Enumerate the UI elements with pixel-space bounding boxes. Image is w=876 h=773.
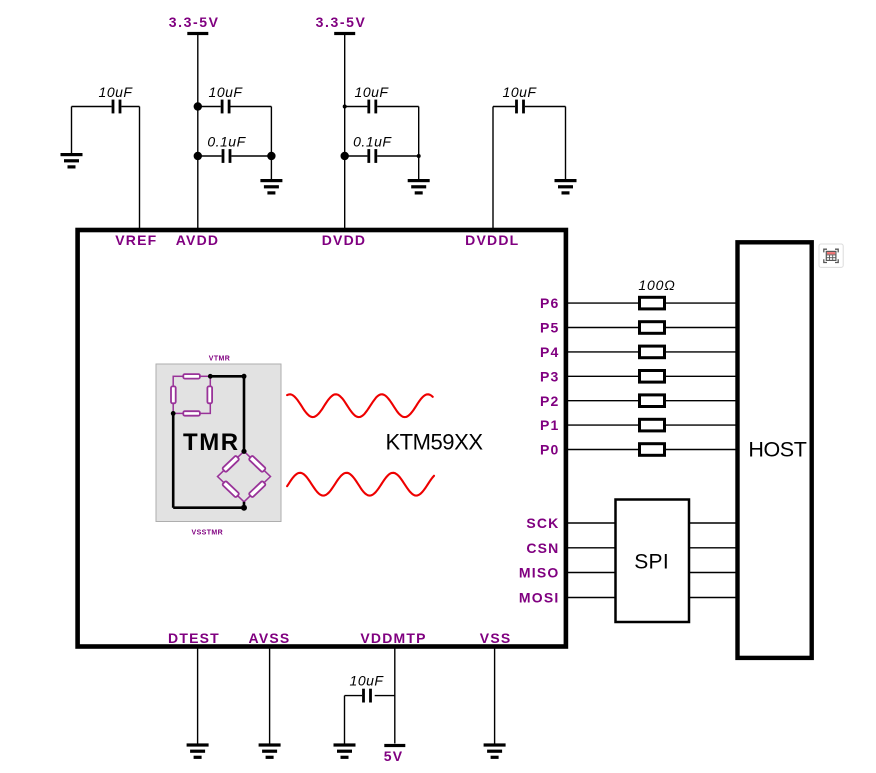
wire DVDD 10uF left lead <box>345 106 368 108</box>
junction AVDD 0.1uF right / ground <box>267 152 275 160</box>
wire CSN to SPI block <box>566 547 616 549</box>
wire VDDMTP cap ground drop <box>344 696 346 744</box>
svg-text:P4: P4 <box>540 344 560 360</box>
wire AVDD 0.1uF left lead <box>198 155 222 157</box>
svg-text:10uF: 10uF <box>350 673 385 689</box>
svg-text:0.1uF: 0.1uF <box>353 133 392 149</box>
wire DVDD ground drop <box>418 156 420 179</box>
svg-text:MISO: MISO <box>519 565 560 581</box>
svg-text:P1: P1 <box>540 417 560 433</box>
power rail bar 5V <box>384 744 405 747</box>
wire P4 to resistor <box>566 351 640 353</box>
wire MISO to SPI block <box>566 572 616 574</box>
TMR diamond resistor upper-right <box>249 455 266 472</box>
junction AVDD rail / 10uF <box>194 102 202 110</box>
junction TMR square bottom-left <box>171 411 176 416</box>
wire resistor to HOST (P3) <box>665 375 738 377</box>
wire SPI block to HOST (MOSI) <box>689 597 738 599</box>
wire SPI block to HOST (SCK) <box>689 522 738 524</box>
wire AVDD 10uF right lead <box>231 106 272 108</box>
capacitor 0.1uF (DVDD) <box>367 149 377 163</box>
capacitor 0.1uF (AVDD) <box>222 149 232 163</box>
signal wave 1 (red sine wave) <box>287 394 433 417</box>
wire TMR right link <box>243 376 246 451</box>
wire VDDMTP pin rail <box>394 647 396 744</box>
resistor 100 ohm (P1) <box>640 419 665 431</box>
capacitor 10uF (DVDD) <box>367 100 377 114</box>
svg-text:SPI: SPI <box>634 551 669 574</box>
svg-text:P6: P6 <box>540 295 560 311</box>
wire DVDDL ground drop <box>565 107 567 180</box>
wire DVDDL pin <box>492 107 494 230</box>
TMR diamond resistor lower-right <box>249 481 266 498</box>
wire resistor to HOST (P2) <box>665 400 738 402</box>
wire DVDDL cap left lead <box>493 106 515 108</box>
wire VREF pin <box>139 107 141 230</box>
svg-text:10uF: 10uF <box>503 84 538 100</box>
junction DVDD rail / 10uF <box>343 105 347 109</box>
wire DTEST ground drop <box>197 647 199 744</box>
wire DVDDL cap right lead <box>525 106 566 108</box>
junction TMR square top-right <box>208 374 213 379</box>
svg-text:5V: 5V <box>384 748 404 764</box>
svg-text:VSSTMR: VSSTMR <box>192 529 224 536</box>
HOST block <box>738 242 812 658</box>
TMR diamond resistor lower-left <box>222 481 239 498</box>
capacitor 10uF (AVDD) <box>221 100 231 114</box>
junction TMR top link corner <box>242 374 247 379</box>
svg-text:DVDDL: DVDDL <box>465 232 519 248</box>
wire AVDD ground drop <box>270 156 272 179</box>
wire SPI block to HOST (MISO) <box>689 572 738 574</box>
wire resistor to HOST (P1) <box>665 424 738 426</box>
wire SCK to SPI block <box>566 522 616 524</box>
TMR bridge resistor right <box>207 386 212 403</box>
capacitor 10uF (VDDMTP) <box>362 689 372 703</box>
svg-text:AVSS: AVSS <box>249 630 291 646</box>
wire P3 to resistor <box>566 375 640 377</box>
svg-text:HOST: HOST <box>748 438 806 462</box>
svg-text:TMR: TMR <box>183 429 239 456</box>
junction DVDD 0.1uF right / ground <box>417 154 421 158</box>
svg-text:VSS: VSS <box>480 630 512 646</box>
svg-text:DTEST: DTEST <box>168 630 220 646</box>
wire P1 to resistor <box>566 424 640 426</box>
wire VREF ground drop <box>71 107 73 154</box>
svg-text:VTMR: VTMR <box>209 355 230 362</box>
junction AVDD rail / 0.1uF <box>194 152 202 160</box>
wire MOSI to SPI block <box>566 597 616 599</box>
svg-text:AVDD: AVDD <box>176 232 219 248</box>
capacitor 10uF (VREF) <box>112 100 122 114</box>
svg-text:P2: P2 <box>540 393 560 409</box>
TMR diamond bridge loop wire <box>218 451 271 502</box>
ground DVDD caps <box>408 179 430 195</box>
wire VREF cap left lead <box>72 106 112 108</box>
wire P2 to resistor <box>566 400 640 402</box>
svg-text:10uF: 10uF <box>99 84 134 100</box>
ground VREF cap <box>61 153 83 169</box>
svg-text:3.3-5V: 3.3-5V <box>169 14 220 30</box>
wire AVDD 10uF left lead <box>198 106 221 108</box>
wire TMR left link <box>172 413 175 507</box>
wire VSS ground drop <box>494 647 496 744</box>
svg-text:VDDMTP: VDDMTP <box>360 630 426 646</box>
ground AVSS <box>259 743 281 759</box>
TMR sensor block background <box>156 364 281 522</box>
junction TMR diamond top <box>241 449 246 454</box>
ground AVDD caps <box>260 179 282 195</box>
capacitor 10uF (DVDDL) <box>515 100 525 114</box>
resistor 100 ohm (P3) <box>640 371 665 383</box>
resistor 100 ohm (P4) <box>640 346 665 358</box>
IC U1 KTM59XX body <box>78 230 566 647</box>
wire VDDMTP cap left lead <box>345 695 363 697</box>
svg-text:10uF: 10uF <box>209 84 244 100</box>
wire TMR top link <box>210 375 244 378</box>
resistor 100 ohm (P0) <box>640 444 665 456</box>
junction DVDD rail / 0.1uF <box>341 152 349 160</box>
svg-text:SCK: SCK <box>526 515 559 531</box>
TMR bridge resistor top <box>183 374 200 379</box>
svg-text:DVDD: DVDD <box>322 232 366 248</box>
svg-text:KTM59XX: KTM59XX <box>385 430 483 455</box>
wire P0 to resistor <box>566 449 640 451</box>
svg-text:3.3-5V: 3.3-5V <box>316 14 367 30</box>
resistor 100 ohm (P6) <box>640 297 665 309</box>
TMR bridge resistor left <box>171 386 176 403</box>
wire DVDD 0.1uF left lead <box>345 155 368 157</box>
wire AVDD pin rail <box>197 35 199 229</box>
wire resistor to HOST (P6) <box>665 302 738 304</box>
wire DVDD 10uF right lead <box>377 106 419 108</box>
svg-text:VREF: VREF <box>115 232 157 248</box>
signal wave 2 (red sine wave) <box>287 473 434 496</box>
svg-text:P0: P0 <box>540 442 560 458</box>
svg-text:10uF: 10uF <box>355 84 390 100</box>
power rail bar 3.3-5V (DVDD) <box>334 32 355 35</box>
ground DVDDL cap <box>555 179 577 195</box>
wire P5 to resistor <box>566 327 640 329</box>
wire TMR bottom link <box>173 506 244 509</box>
wire resistor to HOST (P0) <box>665 449 738 451</box>
ground VSS <box>484 743 506 759</box>
wire AVDD 0.1uF right lead <box>231 155 271 157</box>
junction TMR bottom link corner <box>241 505 247 511</box>
TMR diamond resistor upper-left <box>222 455 239 472</box>
wire resistor to HOST (P4) <box>665 351 738 353</box>
wire DVDD pin rail <box>344 35 346 229</box>
wire resistor to HOST (P5) <box>665 327 738 329</box>
wire TMR diamond bottom stub <box>243 502 246 508</box>
wire VDDMTP cap right lead <box>375 695 395 697</box>
wire AVSS ground drop <box>269 647 271 744</box>
power rail bar 3.3-5V (AVDD) <box>187 32 208 35</box>
svg-text:MOSI: MOSI <box>519 590 560 606</box>
wire P6 to resistor <box>566 302 640 304</box>
UI button with table/grid icon <box>819 244 843 267</box>
svg-text:P3: P3 <box>540 368 560 384</box>
TMR square bridge loop wire <box>173 376 210 413</box>
ground VDDMTP cap <box>334 743 356 759</box>
wire SPI block to HOST (CSN) <box>689 547 738 549</box>
svg-text:CSN: CSN <box>526 540 559 556</box>
svg-text:P5: P5 <box>540 320 560 336</box>
resistor 100 ohm (P2) <box>640 395 665 407</box>
svg-text:0.1uF: 0.1uF <box>207 133 246 149</box>
resistor 100 ohm (P5) <box>640 322 665 334</box>
wire AVDD right rail <box>270 107 272 157</box>
ground DTEST <box>187 743 209 759</box>
wire DVDD right rail <box>418 107 420 157</box>
SPI block <box>616 500 690 623</box>
wire VREF cap right lead <box>121 106 139 108</box>
wire DVDD 0.1uF right lead <box>377 155 419 157</box>
svg-text:100Ω: 100Ω <box>638 277 675 293</box>
TMR bridge resistor bottom <box>183 411 200 416</box>
